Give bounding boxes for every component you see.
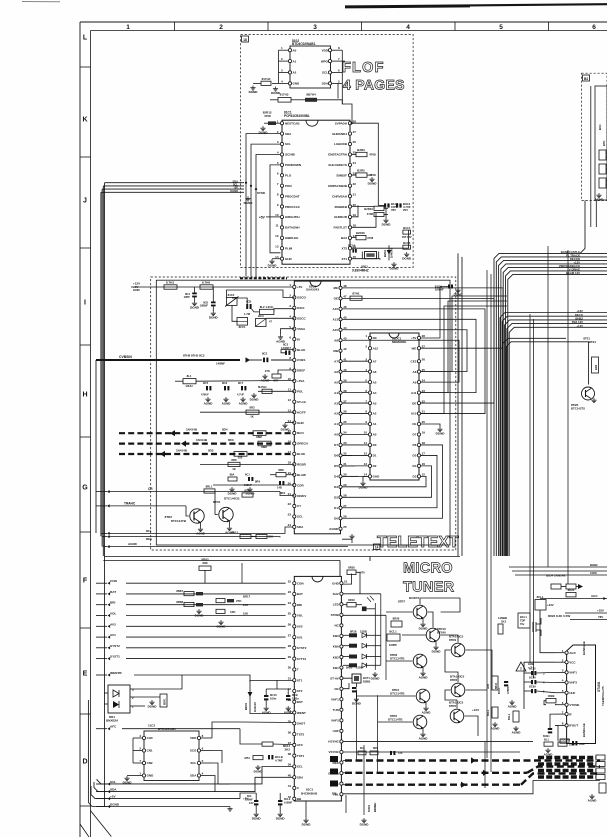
svg-text:8R55: 8R55 xyxy=(348,566,355,570)
wire right bundle A xyxy=(494,250,607,556)
svg-text:ST-AV: ST-AV xyxy=(330,676,339,680)
svg-text:XT1: XT1 xyxy=(297,678,303,682)
wire identif run xyxy=(134,675,250,682)
svg-text:A5: A5 xyxy=(373,380,377,384)
svg-text:24: 24 xyxy=(353,161,357,165)
svg-text:17: 17 xyxy=(422,452,426,456)
svg-text:FLOF: FLOF xyxy=(342,60,385,76)
svg-text:TDP: TDP xyxy=(520,618,525,622)
svg-text:78V: 78V xyxy=(598,615,603,619)
svg-text:5: 5 xyxy=(499,24,503,31)
RAM IC 81DC1 MEMOIRE xyxy=(364,333,426,480)
svg-text:1N4148: 1N4148 xyxy=(253,702,257,712)
svg-text:12: 12 xyxy=(364,452,368,456)
svg-text:15DB: 15DB xyxy=(360,630,367,634)
svg-text:D4: D4 xyxy=(334,475,338,479)
svg-text:1N414B: 1N414B xyxy=(196,438,208,442)
svg-text:B1C5: B1C5 xyxy=(403,241,411,245)
svg-text:1N414B: 1N414B xyxy=(176,448,188,452)
svg-text:+12V: +12V xyxy=(472,708,479,712)
svg-text:CE2: CE2 xyxy=(411,359,417,363)
svg-text:A1: A1 xyxy=(373,422,377,426)
svg-text:8.7H8: 8.7H8 xyxy=(202,280,210,284)
svg-text:8CB1: 8CB1 xyxy=(543,734,550,738)
svg-text:+5V: +5V xyxy=(259,216,266,220)
ground resistor pack 2 xyxy=(217,620,227,629)
svg-text:PLIM: PLIM xyxy=(285,246,293,250)
svg-text:HIRGHTIH: HIRGHTIH xyxy=(285,215,300,219)
flof teletext border overlap xyxy=(240,277,287,279)
svg-text:COM: COM xyxy=(590,571,597,575)
svg-text:SCL: SCL xyxy=(322,71,328,75)
wire kb verticals xyxy=(375,594,386,680)
svg-text:D: D xyxy=(82,758,87,765)
wire right verticals to dashes xyxy=(485,742,491,788)
ground io gnd xyxy=(127,775,133,777)
svg-text:24: 24 xyxy=(288,523,292,527)
svg-text:8L1: 8L1 xyxy=(187,374,192,378)
svg-text:D7: D7 xyxy=(334,443,338,447)
svg-text:PROCCLK: PROCCLK xyxy=(285,205,301,209)
svg-text:SDA: SDA xyxy=(322,82,329,86)
svg-text:AGND: AGND xyxy=(419,676,429,680)
svg-text:CE: CE xyxy=(412,422,416,426)
warning triangle xyxy=(516,662,534,671)
ground crystal tuner xyxy=(352,697,362,706)
resistor 8R26 xyxy=(391,617,402,627)
svg-text:POL: POL xyxy=(297,390,303,394)
ground 8TR7 xyxy=(422,618,424,622)
svg-text:817H4: 817H4 xyxy=(262,77,271,81)
wire svpadh net xyxy=(352,123,379,205)
component top right of dashes xyxy=(544,738,585,747)
svg-text:DGND: DGND xyxy=(436,432,446,436)
wire tuner input runs xyxy=(126,583,286,658)
wire vtune net xyxy=(555,704,556,706)
svg-text:VCC: VCC xyxy=(569,660,576,664)
svg-text:BC89: BC89 xyxy=(529,685,536,689)
svg-text:40: 40 xyxy=(288,773,292,777)
svg-text:VDD: VDD xyxy=(322,48,329,52)
wire pol row xyxy=(258,385,294,394)
svg-text:M51: M51 xyxy=(245,756,251,760)
wire BLUE dashed xyxy=(119,448,293,459)
svg-text:D5: D5 xyxy=(334,464,338,468)
svg-text:21: 21 xyxy=(422,410,426,414)
svg-text:8T3CBB: 8T3CBB xyxy=(560,738,570,742)
resistor 8R14 2K2 xyxy=(240,729,293,752)
component cluster blaw xyxy=(270,468,294,495)
opto coupler DR1 xyxy=(104,685,134,723)
svg-text:22: 22 xyxy=(288,502,292,506)
IC 11C3 BTC62GAB xyxy=(133,724,212,781)
svg-text:70v: 70v xyxy=(520,622,525,626)
capacitor 81C1 100NF teletext xyxy=(421,285,453,339)
svg-text:K: K xyxy=(82,116,87,123)
svg-text:38: 38 xyxy=(343,389,347,393)
svg-text:SDA: SDA xyxy=(190,774,197,778)
main IC 8101 PCF84C81900BL xyxy=(275,111,356,265)
svg-text:8D2: 8D2 xyxy=(208,448,214,452)
svg-text:SYST2: SYST2 xyxy=(110,644,120,648)
label +5V pin10 xyxy=(259,216,280,220)
label 8CM1 vertical xyxy=(367,803,377,812)
resistor 817H1 xyxy=(261,77,271,86)
svg-text:AGND: AGND xyxy=(491,727,501,731)
svg-text:A15: A15 xyxy=(332,328,338,332)
ground B2R5 xyxy=(368,177,378,186)
svg-text:XT2: XT2 xyxy=(341,246,347,250)
svg-text:8R87: 8R87 xyxy=(176,589,183,593)
svg-text:AGND: AGND xyxy=(419,737,429,741)
svg-text:BTA143C5: BTA143C5 xyxy=(450,675,465,679)
wire afc run xyxy=(122,728,240,730)
svg-text:19: 19 xyxy=(422,431,426,435)
resistor 11N88 1K2 xyxy=(498,616,507,634)
svg-text:8C2: 8C2 xyxy=(262,352,268,356)
teletext inner box xyxy=(156,280,450,545)
svg-text:B2R10: B2R10 xyxy=(364,207,373,211)
svg-text:DTC144CB: DTC144CB xyxy=(224,497,240,501)
component cluster tst xyxy=(245,755,283,762)
svg-text:EMPACKB3B: EMPACKB3B xyxy=(328,184,348,188)
svg-text:AGND: AGND xyxy=(222,402,232,406)
wire ram right nested xyxy=(421,296,507,414)
svg-text:IFOUT: IFOUT xyxy=(569,724,578,728)
wire bottom rails xyxy=(126,767,293,807)
svg-text:14Bn: 14Bn xyxy=(292,697,299,701)
capacitor 8CL3 100NF xyxy=(245,793,258,812)
ground 8TR1 xyxy=(229,521,231,526)
wire opto links xyxy=(134,675,182,706)
svg-text:BTD: BTD xyxy=(602,141,606,146)
resistor 8R7 dref xyxy=(265,369,294,383)
transistor 8TR5 xyxy=(449,701,464,724)
IF module components xyxy=(598,124,606,188)
svg-text:SHOT: SHOT xyxy=(297,722,306,726)
svg-text:A5: A5 xyxy=(334,380,338,384)
svg-text:A8: A8 xyxy=(334,338,338,342)
svg-text:J: J xyxy=(83,197,87,204)
svg-text:ME: ME xyxy=(334,286,339,290)
svg-text:D0: D0 xyxy=(334,516,338,520)
resistor B2R5 4708 xyxy=(352,168,376,177)
svg-text:35: 35 xyxy=(343,420,347,424)
svg-text:AGND: AGND xyxy=(262,711,272,715)
ground under arrows 2 xyxy=(246,487,256,496)
resistor 87H3 rail xyxy=(164,280,177,289)
svg-text:15: 15 xyxy=(353,255,357,259)
svg-text:25: 25 xyxy=(422,368,426,372)
wire scl sda verticals center xyxy=(103,557,460,584)
svg-text:BAT: BAT xyxy=(110,590,116,594)
svg-text:BLINDAGE: BLINDAGE xyxy=(582,723,586,737)
svg-text:DGND: DGND xyxy=(359,486,369,490)
wire 70V rail xyxy=(570,615,607,619)
svg-text:HIBDLEH: HIBDLEH xyxy=(285,236,298,240)
capacitor B1C11 140n xyxy=(286,689,299,701)
wire teletext left +5V rail xyxy=(131,282,293,292)
resistor 87H8 rail xyxy=(200,280,213,289)
resistor 1N88 1B xyxy=(546,694,556,703)
svg-text:VDD: VDD xyxy=(190,736,197,740)
end boxes right edge xyxy=(599,783,606,793)
svg-text:DTC114TB: DTC114TB xyxy=(390,691,404,695)
svg-text:+33V: +33V xyxy=(547,603,554,607)
wire blak stub xyxy=(281,350,294,353)
wire tuner top bundle xyxy=(509,563,607,575)
svg-text:DGND: DGND xyxy=(432,650,442,654)
wire transistor cluster nets xyxy=(343,598,533,772)
svg-text:180P: 180P xyxy=(579,742,585,746)
svg-text:31: 31 xyxy=(343,462,347,466)
svg-text:BRI: BRI xyxy=(110,601,115,605)
ground ram pin14 xyxy=(363,476,368,481)
ground eeprom left xyxy=(249,86,259,95)
wire CR row xyxy=(96,487,294,495)
svg-text:KB0: KB0 xyxy=(333,634,339,638)
svg-text:4 PAGES: 4 PAGES xyxy=(343,77,405,93)
transistor 8TR6 xyxy=(450,675,465,698)
svg-text:DGND: DGND xyxy=(195,614,205,618)
svg-text:AFC: AFC xyxy=(110,725,117,729)
label blobs left of dashes xyxy=(330,756,338,787)
wire border exit diagonals xyxy=(80,811,111,837)
ground bus entry xyxy=(244,196,254,205)
svg-text:KI: KI xyxy=(297,337,300,341)
svg-text:CN2: CN2 xyxy=(147,761,153,765)
capacitor 8C7 row xyxy=(237,381,246,397)
svg-text:81C2: 81C2 xyxy=(228,293,235,297)
svg-text:DGND: DGND xyxy=(252,817,262,821)
svg-text:1K: 1K xyxy=(232,467,236,471)
svg-text:4708: 4708 xyxy=(369,153,376,157)
svg-text:D2: D2 xyxy=(373,464,377,468)
wire mini bundle BTE1 xyxy=(503,337,596,557)
svg-text:12: 12 xyxy=(275,234,279,238)
svg-text:TRAHC: TRAHC xyxy=(124,502,136,506)
IF box B3 dashed xyxy=(582,73,607,200)
svg-text:GHD: GHD xyxy=(332,581,340,585)
crystal 8201 xyxy=(352,252,379,273)
svg-text:8R23 8.2K 0.5W: 8R23 8.2K 0.5W xyxy=(548,614,570,618)
svg-text:BRI: BRI xyxy=(297,603,302,607)
svg-text:100NF: 100NF xyxy=(435,288,444,292)
svg-text:GHD: GHD xyxy=(373,475,381,479)
svg-text:VHF3: VHF3 xyxy=(569,681,577,685)
svg-text:MICRO: MICRO xyxy=(403,561,453,577)
svg-text:MEMOIRE: MEMOIRE xyxy=(392,340,406,344)
svg-text:BST: BST xyxy=(297,700,303,704)
svg-text:BD3BH: BD3BH xyxy=(373,803,377,812)
svg-text:BCL1: BCL1 xyxy=(520,615,527,619)
svg-text:SCO: SCO xyxy=(190,749,197,753)
transistor 8TR2 DTC144TB xyxy=(165,506,205,524)
svg-text:SDA: SDA xyxy=(110,788,117,792)
svg-text:OE: OE xyxy=(412,401,416,405)
svg-text:SCL: SCL xyxy=(297,765,303,769)
svg-text:10UH: 10UH xyxy=(185,384,192,388)
capacitor 8CC1 xyxy=(237,318,248,329)
svg-text:8LPH1: 8LPH1 xyxy=(258,385,267,389)
svg-text:KB9: KB9 xyxy=(333,645,339,649)
led 8L2 indicator xyxy=(362,596,375,611)
wire ba2 net xyxy=(352,230,409,248)
svg-text:88M: 88M xyxy=(256,435,262,439)
svg-text:SDA: SDA xyxy=(297,775,304,779)
svg-text:HC/FF: HC/FF xyxy=(297,410,306,414)
svg-text:D6: D6 xyxy=(413,443,417,447)
svg-text:8R4: 8R4 xyxy=(280,491,286,495)
ground resistor pack 1 xyxy=(195,609,205,618)
IF module inner box xyxy=(591,86,607,227)
trimmer 81C2 27PF xyxy=(225,293,239,307)
svg-text:22: 22 xyxy=(422,399,426,403)
svg-text:D3: D3 xyxy=(413,475,417,479)
resistor pack kb diodes xyxy=(343,630,381,670)
svg-text:8CL1: 8CL1 xyxy=(537,595,544,599)
svg-text:I2CHIB: I2CHIB xyxy=(285,153,296,157)
svg-text:SCL: SCL xyxy=(110,780,116,784)
svg-text:33: 33 xyxy=(343,441,347,445)
ground ram ce xyxy=(421,424,440,427)
svg-text:DATAGNH: DATAGNH xyxy=(285,226,300,230)
svg-text:+5V: +5V xyxy=(110,795,117,799)
ground B1C5 xyxy=(402,252,412,261)
svg-text:10: 10 xyxy=(364,431,368,435)
svg-text:DGND: DGND xyxy=(230,189,238,193)
svg-text:24: 24 xyxy=(288,601,292,605)
svg-text:D2: D2 xyxy=(334,496,338,500)
svg-text:41: 41 xyxy=(288,784,292,788)
svg-text:12: 12 xyxy=(288,398,292,402)
ground B1C10 xyxy=(262,706,272,715)
svg-text:SVPADH: SVPADH xyxy=(335,121,347,125)
svg-text:A0: A0 xyxy=(373,433,377,437)
svg-text:8D4: 8D4 xyxy=(222,428,228,432)
svg-text:A12: A12 xyxy=(373,346,379,350)
svg-text:4708: 4708 xyxy=(264,114,271,118)
svg-text:VHF2: VHF2 xyxy=(331,719,339,723)
svg-text:BTC62GAB1: BTC62GAB1 xyxy=(158,727,176,731)
svg-text:AGC: AGC xyxy=(569,651,577,655)
svg-text:8R8: 8R8 xyxy=(278,468,284,472)
svg-text:40: 40 xyxy=(343,368,347,372)
svg-text:B2R5: B2R5 xyxy=(357,168,365,172)
wire GREEN dashed row xyxy=(343,767,600,776)
svg-text:2KBBKB: 2KBBKB xyxy=(334,205,347,209)
svg-text:8R18: 8R18 xyxy=(350,630,357,634)
svg-text:NESTCAB: NESTCAB xyxy=(285,121,300,125)
svg-text:AGND: AGND xyxy=(544,753,554,757)
svg-text:CR: CR xyxy=(148,487,153,491)
resistor 8R3 hcff xyxy=(200,406,294,419)
svg-text:DGND: DGND xyxy=(148,705,158,709)
ground pol xyxy=(250,393,260,402)
svg-text:29: 29 xyxy=(288,655,292,659)
ground 81C1 cap xyxy=(454,288,464,297)
svg-text:A4: A4 xyxy=(373,391,377,395)
svg-text:24: 24 xyxy=(422,378,426,382)
svg-text:A7: A7 xyxy=(334,359,338,363)
svg-text:GND: GND xyxy=(147,774,155,778)
capacitor 8CB xyxy=(244,299,252,316)
svg-text:14B: 14B xyxy=(277,486,282,490)
svg-text:DGND: DGND xyxy=(281,428,291,432)
ground trimmer 8C4 xyxy=(190,301,200,310)
ground col2 xyxy=(512,726,522,735)
svg-text:32: 32 xyxy=(343,452,347,456)
wire kb column feeds xyxy=(343,574,386,616)
svg-text:VHF1: VHF1 xyxy=(331,697,339,701)
svg-text:87H1: 87H1 xyxy=(352,292,360,296)
svg-text:A3: A3 xyxy=(334,401,338,405)
ground 8C5 xyxy=(204,397,214,406)
svg-text:HSYNC: HSYNC xyxy=(328,740,339,744)
svg-text:TST1: TST1 xyxy=(297,754,305,758)
svg-text:DGND: DGND xyxy=(244,201,254,205)
svg-text:A3: A3 xyxy=(373,401,377,405)
svg-text:WE: WE xyxy=(412,346,417,350)
svg-text:4.7UF: 4.7UF xyxy=(237,393,244,397)
svg-text:BLUE: BLUE xyxy=(297,452,305,456)
svg-text:A10: A10 xyxy=(332,307,338,311)
transistor 8TR7 xyxy=(398,596,427,619)
svg-text:8YND: 8YND xyxy=(257,191,266,195)
svg-text:20: 20 xyxy=(422,420,426,424)
resistor 8R87 15K xyxy=(176,589,203,596)
svg-text:27: 27 xyxy=(353,130,357,134)
tuner IC 8101 TDA8405 xyxy=(288,576,348,801)
svg-text:CVBS: CVBS xyxy=(297,358,305,362)
capacitor 8C8 100NF xyxy=(200,287,216,311)
transistor 8TB5 BTC143TS xyxy=(571,387,595,411)
svg-text:IDENT: IDENT xyxy=(297,711,306,715)
svg-text:+5V: +5V xyxy=(297,285,302,289)
svg-text:EMBSF: EMBSF xyxy=(337,174,348,178)
svg-text:1.7M: 1.7M xyxy=(244,312,251,316)
svg-text:BLINDAGE: BLINDAGE xyxy=(582,641,586,655)
capacitor B1C10 100n xyxy=(264,689,277,706)
transistor 8TR9 xyxy=(449,635,465,658)
wire main left bus xyxy=(96,183,105,806)
resistor B2R16 xyxy=(352,231,374,240)
svg-text:11: 11 xyxy=(275,224,279,228)
svg-text:DGND: DGND xyxy=(268,264,278,268)
svg-text:D0: D0 xyxy=(373,443,377,447)
svg-text:DGND: DGND xyxy=(249,90,259,94)
resistor 82R12 4708 xyxy=(263,111,281,125)
svg-text:120PF: 120PF xyxy=(389,643,398,647)
svg-text:1N4148: 1N4148 xyxy=(390,248,394,258)
svg-text:817H3: 817H3 xyxy=(280,93,289,97)
wire SCL teletext xyxy=(101,527,294,535)
svg-text:8R9: 8R9 xyxy=(373,746,378,750)
ground tuner pin C xyxy=(305,801,307,818)
svg-text:AGND: AGND xyxy=(329,527,339,531)
mosfet BCL1 TOP xyxy=(518,613,530,628)
svg-text:2K2: 2K2 xyxy=(284,748,290,752)
svg-text:D4: D4 xyxy=(413,464,417,468)
svg-text:DGND: DGND xyxy=(382,223,392,227)
svg-text:26: 26 xyxy=(288,623,292,627)
svg-text:10BNF: 10BNF xyxy=(284,801,293,805)
svg-text:15DB: 15DB xyxy=(356,666,363,670)
svg-text:42: 42 xyxy=(343,347,347,351)
svg-text:CH0: CH0 xyxy=(147,736,153,740)
resistor 8R12 pullups xyxy=(231,530,273,538)
svg-text:OD/EV: OD/EV xyxy=(297,494,306,498)
